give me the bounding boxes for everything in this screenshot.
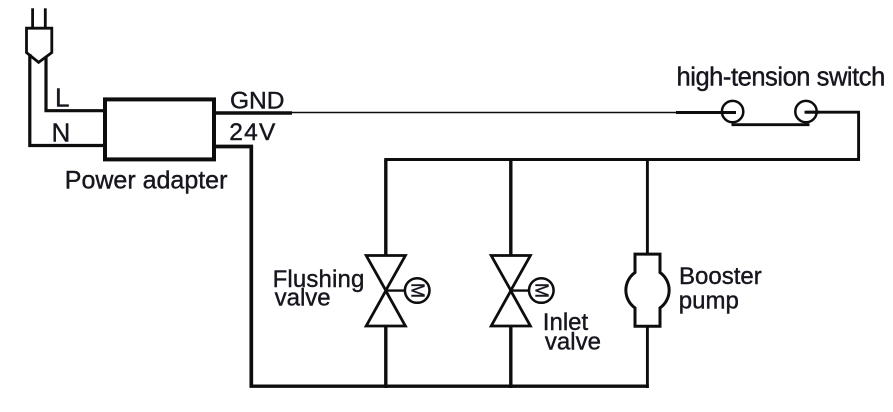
svg-text:M: M bbox=[408, 283, 428, 298]
flushing valve V1 lower triangle bbox=[366, 291, 405, 326]
wire N from plug to adapter bbox=[30, 54, 105, 146]
svg-text:M: M bbox=[532, 283, 552, 298]
wire from switch down to top rail (right side) bbox=[806, 112, 859, 161]
high-tension switch S1 contact circle left bbox=[722, 101, 743, 122]
svg-text:high-tension switch: high-tension switch bbox=[677, 64, 885, 92]
AC plug P1 prong left bbox=[31, 8, 34, 28]
wire GND thick segment from adapter bbox=[216, 111, 292, 114]
AC plug P1 body bbox=[27, 28, 52, 62]
flushing valve V1 motor link bbox=[386, 289, 405, 291]
svg-text:24V: 24V bbox=[229, 119, 277, 146]
svg-text:valve: valve bbox=[275, 284, 331, 311]
svg-text:GND: GND bbox=[230, 87, 284, 114]
svg-text:valve: valve bbox=[545, 329, 601, 356]
svg-text:N: N bbox=[52, 118, 71, 148]
svg-text:pump: pump bbox=[679, 287, 739, 314]
wire leaving right contact centre bbox=[805, 111, 821, 114]
wire GND entering left contact bbox=[676, 111, 736, 114]
high-tension switch S1 bridge bar bbox=[732, 123, 810, 126]
inlet valve V2 upper triangle bbox=[491, 256, 530, 291]
AC plug P1 prong right bbox=[44, 8, 47, 28]
wire flushing valve top bbox=[384, 160, 387, 257]
wire 24V from adapter down to bottom rail bbox=[216, 147, 251, 388]
inlet valve V2 motor link bbox=[511, 289, 530, 291]
wire top distribution rail bbox=[384, 158, 860, 161]
flushing valve V1 motor circle M bbox=[405, 278, 430, 303]
wire inlet valve bottom bbox=[509, 326, 512, 389]
wire GND thin segment bbox=[292, 112, 676, 114]
wire inlet valve top bbox=[509, 160, 512, 257]
wire booster pump top bbox=[646, 160, 649, 256]
wire flushing valve bottom bbox=[384, 326, 387, 389]
power adapter box bbox=[105, 99, 214, 159]
high-tension switch S1 contact circle right bbox=[795, 101, 816, 122]
flushing valve V1 upper triangle bbox=[366, 256, 405, 291]
wire bottom return rail bbox=[250, 385, 649, 388]
svg-text:Power adapter: Power adapter bbox=[65, 167, 228, 195]
wire booster pump bottom bbox=[646, 326, 649, 388]
svg-text:L: L bbox=[55, 83, 69, 113]
inlet valve V2 lower triangle bbox=[491, 291, 530, 326]
inlet valve V2 motor circle M bbox=[529, 278, 554, 303]
svg-text:Booster: Booster bbox=[679, 263, 762, 290]
wire L from plug to adapter bbox=[46, 57, 105, 111]
booster pump M1 body bbox=[626, 254, 669, 326]
